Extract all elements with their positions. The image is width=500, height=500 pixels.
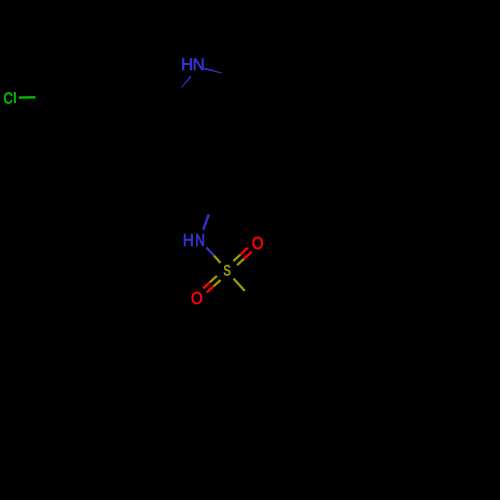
double bond S1=O1 (upper right) [233,248,251,265]
atom label Cl (glyph C, green) [4,93,12,104]
bond C11-N2 (nitrogen half, blue) [203,214,209,230]
bond S1-C12 (sulfur half, olive) [234,279,245,291]
atom label O1 (glyph O, red) [253,237,263,249]
atom label N2 (glyph N, blue) [196,234,203,246]
bond N1-C2 (nitrogen half, blue) [204,68,222,72]
bond N1-C7a (nitrogen half, blue) [181,76,191,87]
bond N1-C7a (carbon half) [171,87,181,98]
bond Cl-C8 (chlorine half, green) [19,96,36,99]
bond C11-N2 (carbon half) [209,199,215,215]
atom label N1 H (glyph H, blue) [182,59,191,71]
aryl ring B (fused) [193,376,277,449]
atom label N1 (glyph N, blue) [194,59,203,71]
atom label N2 H (glyph H, blue) [184,234,193,246]
atom label O2 (glyph O, red) [192,292,202,304]
bond N2-S1 (sulfur half, olive) [214,256,221,263]
bond S1-C12 (carbon half) [245,291,256,303]
bond C10-C11 [214,160,229,199]
bond N1-C2 (carbon half) [223,73,241,77]
atom label Cl (glyph l, green) [14,93,15,103]
aryl ring A at C12 [193,303,277,376]
double bond S1=O2 (lower left) [203,276,220,293]
bond C3-C10 [229,118,237,160]
chlorophenyl ring C3-C8 [52,61,136,134]
pyrrole ring N1-C2-C3-C3a-C7a [171,65,241,132]
bond N2-S1 (nitrogen half, blue) [206,247,214,255]
bond C4-C7a [136,96,171,99]
atom label S1 (glyph S, olive) [224,265,230,276]
bond Cl-C8 (carbon half) [36,96,53,99]
